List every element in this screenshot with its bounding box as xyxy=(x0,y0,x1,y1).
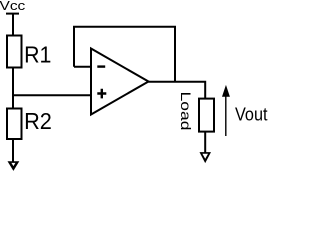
svg-text:Vout: Vout xyxy=(235,105,268,125)
svg-text:R1: R1 xyxy=(24,42,51,68)
svg-text:Vcc: Vcc xyxy=(0,0,26,13)
svg-text:R2: R2 xyxy=(24,108,52,134)
svg-text:Load: Load xyxy=(178,92,194,131)
